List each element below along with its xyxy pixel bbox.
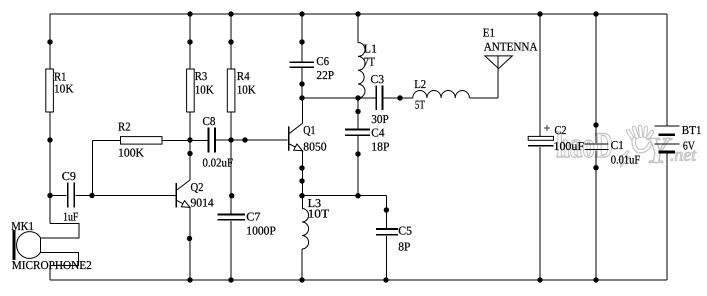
left rail [49,14,51,224]
svg-text:MK1: MK1 [11,219,34,233]
node C1 ground [593,277,598,282]
svg-text:ANTENNA: ANTENNA [484,39,538,53]
svg-text:R4: R4 [237,69,250,83]
node C4 row [355,193,360,198]
battery BT1 [666,14,668,280]
node Q2 collector [187,151,192,156]
watermark haoDIY.net [556,125,697,172]
top rail [50,13,667,15]
resistor R3 [189,14,191,180]
svg-text:L1: L1 [364,42,377,56]
node C9 right [89,193,94,198]
svg-text:0.01uF: 0.01uF [611,152,641,166]
inductor L2 [413,90,470,98]
svg-text:10K: 10K [54,82,74,96]
wire emitter row [302,195,386,197]
capacitor C8 [209,128,216,153]
svg-text:0.02uF: 0.02uF [203,156,234,170]
svg-text:100K: 100K [118,145,144,159]
wire mic top lead jog [41,224,80,238]
svg-text:BT1: BT1 [682,123,702,137]
resistor R2 [93,139,209,141]
node Q1 collector [299,95,304,100]
node R1 top [47,39,52,44]
capacitor C1 [595,14,597,280]
svg-text:C8: C8 [203,114,216,128]
capacitor C5 [385,196,387,280]
node C5 top [384,207,389,212]
node R4 rail [228,11,233,16]
svg-text:22P: 22P [316,68,334,82]
node Q1 emitter b [299,178,304,183]
svg-text:Q2: Q2 [191,180,204,194]
svg-text:18P: 18P [371,140,390,154]
node L3 ground [299,277,304,282]
svg-text:10K: 10K [195,83,214,97]
svg-text:MICROPHONE2: MICROPHONE2 [12,258,92,272]
svg-text:8P: 8P [398,240,411,254]
svg-text:9014: 9014 [191,195,214,209]
wire mic bottom lead jog [41,252,79,280]
svg-text:C7: C7 [246,209,260,223]
svg-text:+: + [544,121,551,135]
svg-text:R3: R3 [195,69,208,83]
node C1 rail [593,11,598,16]
svg-text:30P: 30P [371,112,389,126]
node L3 top [299,193,304,198]
node Q1 emitter a [299,165,304,170]
antenna E1 [497,56,499,98]
node C4 top [355,109,360,114]
svg-text:1000P: 1000P [246,224,276,238]
svg-text:L2: L2 [414,77,426,91]
node C5 ground [383,277,388,282]
node C6 rail [299,11,304,16]
node L1 bottom [355,95,360,100]
wire Q1 emitter to L3 [301,151,303,209]
svg-text:E1: E1 [483,26,495,40]
svg-text:10T: 10T [308,206,330,220]
resistor R4 [230,14,232,214]
node Q1 base [242,137,247,142]
svg-text:8050: 8050 [303,139,326,153]
microphone MK1 [13,230,16,260]
svg-text:7T: 7T [364,55,376,69]
svg-text:C1: C1 [611,138,624,152]
svg-text:100uF: 100uF [554,139,585,153]
node L1 rail [355,11,360,16]
node Q2 emitter [187,236,192,241]
node R3 bottom [187,137,192,142]
node Q2 emitter ground [187,277,192,282]
capacitor C7 [218,215,246,220]
inductor L1 [357,14,359,43]
node R4 top [228,39,233,44]
svg-text:C6: C6 [316,54,329,68]
svg-text:Q1: Q1 [303,123,315,137]
capacitor C6 [301,14,303,98]
node R4 bottom [228,137,233,142]
resistor R1 [46,69,54,112]
node C7 ground [228,277,233,282]
svg-text:6V: 6V [683,139,695,153]
transistor Q2 [176,183,178,207]
bottom rail [50,279,667,281]
svg-text:C2: C2 [555,123,567,137]
inductor L3 [302,209,309,250]
node C9 left [47,193,52,198]
svg-text:C9: C9 [62,169,76,183]
svg-text:C3: C3 [371,72,385,86]
node C3 out [397,95,402,100]
node C9-R2 branch [92,140,94,195]
node C2 ground [537,277,542,282]
svg-text:10K: 10K [237,83,256,97]
capacitor C9 [50,195,176,197]
node C1 top [593,122,598,127]
svg-text:C4: C4 [371,125,384,139]
node C7 top [229,193,234,198]
wire tank row [302,97,413,99]
transistor Q1 [288,126,290,150]
capacitor C3 [376,86,382,111]
node C6 bottom [299,81,304,86]
node R3 top [187,39,192,44]
svg-text:R2: R2 [118,120,131,134]
capacitor C4 [357,98,359,196]
svg-text:1uF: 1uF [63,209,79,223]
svg-text:5T: 5T [415,97,425,111]
node C2 rail [537,11,542,16]
node R1 bottom [47,137,52,142]
node C6 top [299,39,304,44]
capacitor C2 [539,14,541,280]
svg-text:C5: C5 [398,224,412,238]
node C1 bottom [593,165,598,170]
node C4 bottom [355,151,360,156]
node R3 rail [187,11,192,16]
